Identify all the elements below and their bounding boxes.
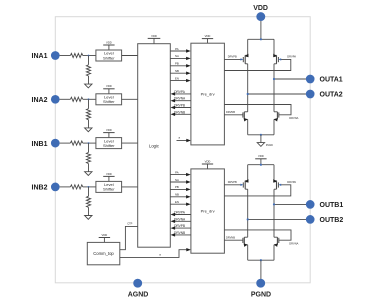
wire NMOS sources to ground rail bridge B bbox=[248, 245, 274, 260]
resistor R3 series bbox=[70, 141, 82, 145]
wire DRVPA pre_drv B to logic bbox=[171, 211, 191, 217]
svg-text:DRVPB: DRVPB bbox=[174, 224, 185, 228]
svg-text:Shifter: Shifter bbox=[103, 99, 115, 104]
svg-text:VDD: VDD bbox=[253, 5, 268, 12]
ground AGND symbol row 4 bbox=[85, 216, 92, 220]
wire VDD rail bridge B bbox=[248, 164, 274, 166]
transistor Q8 NMOS right bridge B bbox=[274, 237, 279, 247]
svg-text:DRVNA: DRVNA bbox=[289, 242, 298, 246]
wire VDD stem to bridge A bbox=[260, 19, 262, 39]
port OUTB1 bbox=[306, 200, 343, 209]
svg-text:VDD: VDD bbox=[102, 233, 108, 237]
wire DRVPB pre_drv A to logic bbox=[171, 104, 191, 110]
ground AGND symbol row 2 bbox=[85, 128, 92, 132]
wire INA1 input bbox=[60, 55, 71, 57]
wire R5 to ground bbox=[88, 76, 90, 84]
svg-text:Shifter: Shifter bbox=[103, 143, 115, 148]
port VDD bbox=[253, 5, 268, 21]
wire gate DRVNA to Q4 bbox=[224, 105, 298, 121]
wire pulldown branch INB2 bbox=[88, 187, 90, 196]
wire OUTA2 bbox=[247, 93, 306, 95]
wire ground rail bridge B bbox=[248, 259, 274, 261]
svg-text:a: a bbox=[179, 136, 181, 140]
svg-text:PGND: PGND bbox=[251, 291, 271, 298]
wire R4 to level shifter, node N4 bbox=[83, 186, 96, 188]
wire VDD rail to PMOS sources bridge B bbox=[248, 165, 274, 180]
svg-text:VDD: VDD bbox=[106, 128, 112, 132]
svg-text:NA: NA bbox=[175, 54, 179, 58]
wire R3 to level shifter, node N3 bbox=[83, 142, 96, 144]
transistor Q3 NMOS left bridge A bbox=[243, 112, 248, 122]
svg-text:Shifter: Shifter bbox=[103, 187, 115, 192]
svg-text:DRVNA: DRVNA bbox=[289, 116, 298, 120]
wire INB2 input bbox=[60, 186, 71, 188]
wire pulldown branch INA1 bbox=[88, 56, 90, 65]
power VDD level shifter 3 bbox=[103, 128, 114, 138]
wire OUTB1 bbox=[273, 203, 306, 205]
resistor R5 pulldown bbox=[86, 65, 90, 76]
transistor Q6 PMOS right bridge B bbox=[273, 179, 278, 189]
svg-text:VDD: VDD bbox=[106, 84, 112, 88]
wire VDD rail bridge A bbox=[248, 38, 274, 40]
power VDD pre_drv B bbox=[202, 159, 213, 169]
transistor Q4 NMOS right bridge A bbox=[274, 112, 279, 122]
level shifter U1 bbox=[96, 50, 122, 61]
wire gate DRVNB to Q7 bbox=[224, 235, 243, 240]
svg-text:DRVPA: DRVPA bbox=[287, 54, 296, 58]
resistor R2 series bbox=[70, 97, 82, 101]
resistor R7 pulldown bbox=[86, 152, 90, 163]
pre-driver block U7 (Pre_drv B) bbox=[191, 169, 225, 253]
port INA2 bbox=[32, 95, 60, 104]
wire pulldown branch INB1 bbox=[88, 143, 90, 152]
svg-text:OUTA2: OUTA2 bbox=[320, 92, 343, 99]
wire INA2 input bbox=[60, 98, 71, 100]
wire R2 to level shifter, node N2 bbox=[83, 98, 96, 100]
power VDD logic bbox=[148, 34, 161, 44]
wire NB logic to pre_drv B bbox=[170, 193, 190, 199]
wire R6 to ground bbox=[88, 120, 90, 128]
svg-text:DRVNB: DRVNB bbox=[174, 231, 185, 235]
svg-text:OUTB2: OUTB2 bbox=[320, 217, 344, 224]
wire CTP comm_top to logic bbox=[120, 222, 138, 250]
level shifter U3 bbox=[96, 138, 122, 149]
wire gate DRVPA to Q2 bbox=[224, 54, 296, 70]
wire gate DRVPB to Q5 bbox=[224, 180, 243, 186]
svg-text:VDD: VDD bbox=[205, 159, 211, 163]
wire pulldown branch INA2 bbox=[88, 99, 90, 108]
power VDD level shifter 2 bbox=[103, 84, 114, 94]
svg-text:OUTA1: OUTA1 bbox=[320, 77, 343, 84]
svg-text:DRVPA: DRVPA bbox=[287, 180, 296, 184]
wire R1 to level shifter, node N1 bbox=[83, 55, 96, 57]
wire bridge A to PGND symbol bbox=[260, 135, 262, 143]
svg-text:a: a bbox=[159, 253, 161, 257]
svg-text:DRVPA: DRVPA bbox=[174, 90, 186, 94]
svg-text:NB: NB bbox=[175, 193, 179, 197]
svg-text:DRVPB: DRVPB bbox=[228, 54, 237, 58]
svg-text:VDD: VDD bbox=[151, 34, 157, 38]
wire R7 to ground bbox=[88, 164, 90, 172]
svg-text:INA1: INA1 bbox=[32, 53, 48, 60]
wire NB logic to pre_drv A bbox=[170, 69, 190, 75]
svg-text:VDD: VDD bbox=[106, 40, 112, 44]
resistor R1 series bbox=[70, 53, 82, 57]
port INB1 bbox=[32, 139, 60, 148]
svg-text:DRVNB: DRVNB bbox=[174, 110, 185, 114]
svg-text:Logic: Logic bbox=[149, 144, 159, 149]
wire Q6 drain vertical bbox=[273, 189, 275, 237]
wire level shifter 2 to logic bbox=[122, 98, 138, 100]
wire Q1 drain vertical bbox=[247, 64, 249, 112]
transistor Q7 NMOS left bridge B bbox=[243, 237, 248, 247]
svg-text:DRVPB: DRVPB bbox=[228, 180, 237, 184]
wire OUTA1 bbox=[273, 78, 306, 80]
IC boundary box bbox=[55, 17, 310, 283]
wire a comm_top to pre_drv B bbox=[120, 248, 191, 257]
wire INB1 input bbox=[60, 142, 71, 144]
wire PB logic to pre_drv A bbox=[170, 62, 190, 68]
wire gate DRVPB to Q1 bbox=[224, 54, 243, 60]
svg-text:DRVPA: DRVPA bbox=[174, 211, 186, 215]
svg-text:VDD: VDD bbox=[258, 154, 264, 158]
wire ground rail bridge A bbox=[248, 134, 274, 136]
svg-text:NA: NA bbox=[175, 178, 179, 182]
level shifter U4 bbox=[96, 181, 122, 192]
wire Q2 drain vertical bbox=[273, 64, 275, 112]
comm_top block U8 bbox=[87, 242, 120, 264]
wire gate DRVNB to Q3 bbox=[224, 110, 243, 115]
svg-text:PA: PA bbox=[175, 47, 179, 51]
svg-text:EN: EN bbox=[175, 76, 179, 80]
wire R8 to ground bbox=[88, 207, 90, 215]
svg-text:VDD: VDD bbox=[106, 172, 112, 176]
resistor R8 pulldown bbox=[86, 196, 90, 207]
svg-text:DRVNB: DRVNB bbox=[226, 110, 235, 114]
svg-text:VDD: VDD bbox=[205, 34, 211, 38]
svg-text:OUTB1: OUTB1 bbox=[320, 202, 344, 209]
svg-text:PB: PB bbox=[175, 62, 179, 66]
wire DRVNB pre_drv B to logic bbox=[171, 231, 191, 237]
resistor R6 pulldown bbox=[86, 109, 90, 120]
pre-driver block U6 (Pre_drv A) bbox=[191, 43, 225, 145]
ground AGND symbol row 3 bbox=[85, 172, 92, 176]
wire OUTB2 bbox=[247, 218, 306, 220]
wire DRVPA pre_drv A to logic bbox=[171, 90, 191, 96]
wire DRVNB pre_drv A to logic bbox=[171, 110, 191, 116]
port OUTB2 bbox=[306, 215, 343, 224]
wire EN logic to pre_drv A bbox=[170, 76, 190, 82]
svg-text:PGND: PGND bbox=[266, 144, 273, 147]
svg-text:AGND: AGND bbox=[128, 291, 149, 298]
svg-text:DRVNA: DRVNA bbox=[174, 97, 186, 101]
wire level shifter 1 to logic bbox=[122, 55, 138, 57]
port AGND bbox=[128, 279, 149, 299]
svg-text:EN: EN bbox=[175, 200, 179, 204]
svg-text:INA2: INA2 bbox=[32, 97, 48, 104]
power VDD bridge B bbox=[255, 154, 266, 165]
svg-text:INB2: INB2 bbox=[32, 185, 48, 192]
svg-text:PB: PB bbox=[175, 185, 179, 189]
logic block U5 bbox=[138, 44, 171, 248]
port INB2 bbox=[32, 183, 60, 192]
svg-text:DRVPB: DRVPB bbox=[174, 104, 185, 108]
power VDD level shifter 1 bbox=[103, 40, 114, 50]
wire NMOS sources to ground rail bridge A bbox=[248, 119, 274, 134]
wire DRVPB pre_drv B to logic bbox=[171, 224, 191, 230]
wire level shifter 3 to logic bbox=[122, 142, 138, 144]
svg-text:INB1: INB1 bbox=[32, 141, 48, 148]
ground PGND symbol bridge A bbox=[257, 143, 273, 148]
wire EN logic to pre_drv B bbox=[170, 200, 190, 206]
svg-text:NB: NB bbox=[175, 69, 179, 73]
svg-text:Comm_top: Comm_top bbox=[93, 251, 114, 256]
svg-text:Pre_drv: Pre_drv bbox=[201, 92, 215, 97]
svg-text:Shifter: Shifter bbox=[103, 55, 115, 60]
wire PA logic to pre_drv B bbox=[170, 170, 190, 176]
transistor Q1 PMOS left bridge A bbox=[243, 54, 248, 64]
port PGND bbox=[251, 279, 271, 299]
wire gate DRVNA to Q8 bbox=[224, 230, 298, 246]
level shifter U2 bbox=[96, 94, 122, 105]
transistor Q2 PMOS right bridge A bbox=[273, 54, 278, 64]
wire level shifter 4 to logic bbox=[122, 186, 138, 188]
ground AGND symbol row 1 bbox=[85, 84, 92, 88]
wire gate DRVPA to Q6 bbox=[224, 180, 296, 196]
port OUTA2 bbox=[306, 90, 343, 99]
wire DRVNA pre_drv A to logic bbox=[171, 97, 191, 103]
wire PB logic to pre_drv B bbox=[170, 185, 190, 191]
svg-text:DRVNB: DRVNB bbox=[226, 235, 235, 239]
svg-text:DRVNA: DRVNA bbox=[174, 217, 186, 221]
wire Q5 drain vertical bbox=[247, 189, 249, 237]
svg-text:CTP: CTP bbox=[127, 222, 132, 226]
wire VDD rail to PMOS sources bridge A bbox=[248, 39, 274, 54]
wire NA logic to pre_drv A bbox=[170, 54, 190, 60]
transistor Q5 PMOS left bridge B bbox=[243, 179, 248, 189]
resistor R4 series bbox=[70, 185, 82, 189]
wire bridge B to PGND port bbox=[260, 260, 262, 281]
power VDD comm_top bbox=[99, 233, 110, 243]
wire DRVNA pre_drv B to logic bbox=[171, 217, 191, 223]
wire NA logic to pre_drv B bbox=[170, 178, 190, 184]
wire PA logic to pre_drv A bbox=[170, 47, 190, 53]
svg-text:PA: PA bbox=[175, 170, 179, 174]
wire a to pre_drv A bbox=[177, 136, 191, 143]
power VDD level shifter 4 bbox=[103, 172, 114, 182]
port INA1 bbox=[32, 51, 60, 60]
svg-text:Pre_drv: Pre_drv bbox=[201, 209, 215, 214]
port OUTA1 bbox=[306, 75, 343, 84]
power VDD pre_drv A bbox=[202, 34, 213, 43]
